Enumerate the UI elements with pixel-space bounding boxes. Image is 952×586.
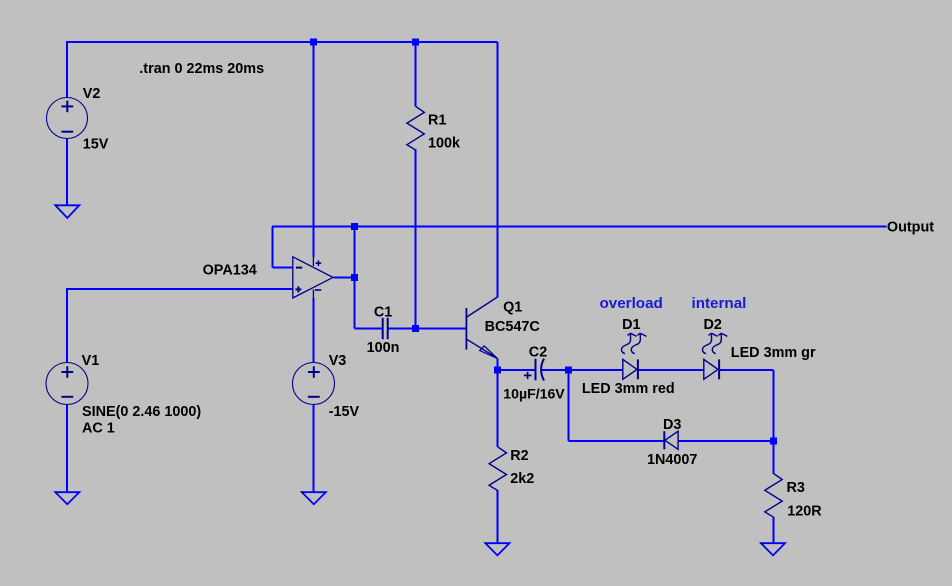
- svg-text:D3: D3: [663, 417, 681, 433]
- svg-text:100k: 100k: [428, 135, 461, 151]
- svg-text:internal: internal: [692, 295, 747, 312]
- svg-text:15V: 15V: [83, 137, 109, 153]
- svg-text:AC 1: AC 1: [82, 420, 115, 436]
- svg-text:V2: V2: [83, 86, 101, 102]
- svg-text:100n: 100n: [367, 340, 400, 356]
- svg-text:120R: 120R: [787, 504, 822, 520]
- svg-text:.tran 0 22ms 20ms: .tran 0 22ms 20ms: [139, 61, 264, 77]
- svg-text:1N4007: 1N4007: [647, 452, 697, 468]
- svg-text:C1: C1: [374, 304, 392, 320]
- svg-text:R2: R2: [510, 448, 528, 464]
- svg-text:10µF/16V: 10µF/16V: [503, 386, 565, 402]
- svg-text:V3: V3: [329, 353, 347, 369]
- svg-text:OPA134: OPA134: [203, 263, 257, 279]
- svg-text:SINE(0 2.46 1000): SINE(0 2.46 1000): [82, 404, 201, 420]
- svg-text:R3: R3: [787, 480, 805, 496]
- svg-text:overload: overload: [600, 295, 663, 312]
- svg-text:C2: C2: [529, 344, 547, 360]
- svg-text:BC547C: BC547C: [485, 319, 540, 335]
- svg-text:V1: V1: [82, 353, 100, 369]
- svg-text:Q1: Q1: [503, 300, 522, 316]
- svg-text:Output: Output: [887, 220, 934, 236]
- svg-text:LED 3mm red: LED 3mm red: [582, 381, 675, 397]
- svg-text:R1: R1: [428, 112, 446, 128]
- svg-text:D2: D2: [704, 317, 722, 333]
- svg-text:2k2: 2k2: [510, 471, 534, 487]
- svg-text:D1: D1: [622, 317, 640, 333]
- svg-text:-15V: -15V: [329, 404, 360, 420]
- svg-text:LED 3mm gr: LED 3mm gr: [731, 345, 816, 361]
